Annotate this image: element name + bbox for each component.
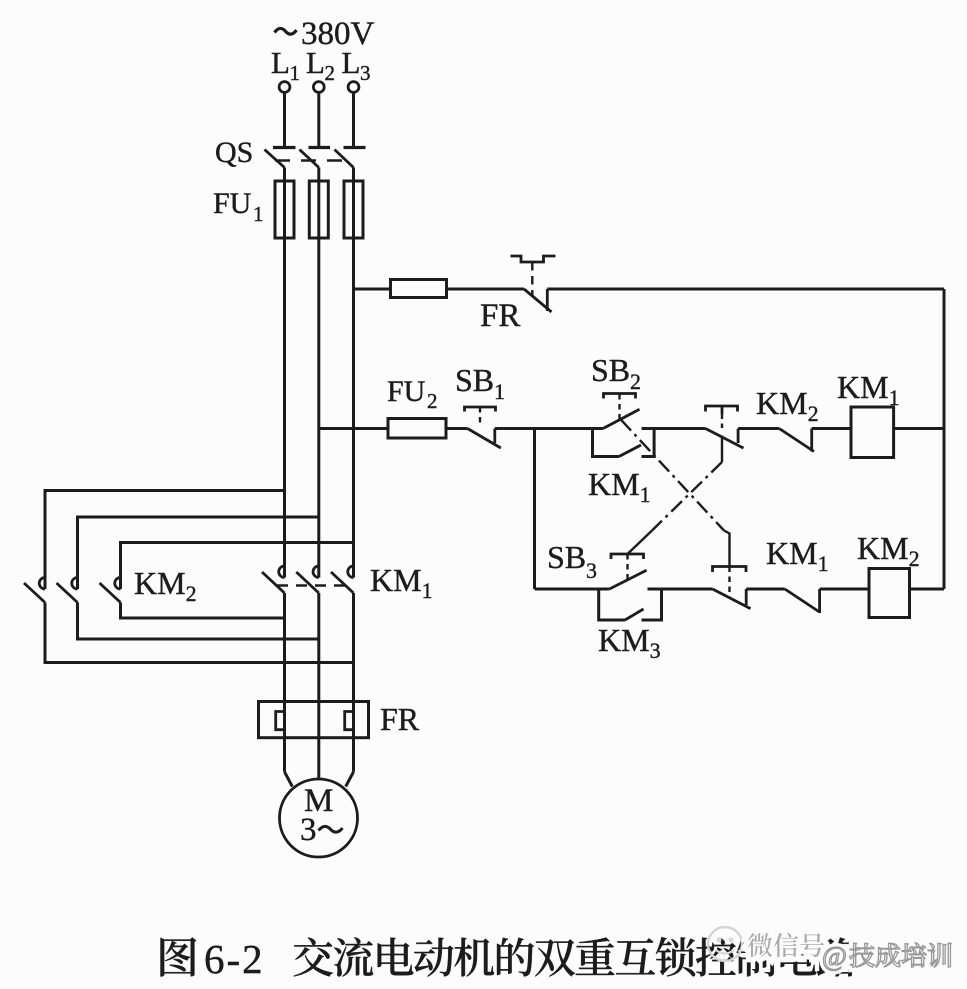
- interlock link row1 NC contact to SB3: [721, 436, 723, 463]
- label ~380V supply: [275, 28, 297, 34]
- svg-text:1: 1: [253, 202, 264, 226]
- pushbutton SB3 NO blade: [609, 570, 646, 589]
- svg-text:3: 3: [586, 558, 597, 583]
- fuse FU2: [388, 419, 446, 439]
- FR heater element phase3: [345, 712, 354, 730]
- contact KM2 NC interlock stub: [810, 429, 813, 452]
- contact SB3-linked actuator bar row1: [706, 406, 738, 412]
- fuse FU1 phase 1: [283, 181, 286, 238]
- svg-text:L: L: [271, 45, 290, 80]
- wire SB2 to SB3 NC contact: [642, 427, 706, 430]
- svg-text:L: L: [306, 45, 325, 80]
- QS linkage dashed line: [275, 159, 346, 161]
- caption 图 6-2 AC motor double-interlock control circuit: [161, 937, 197, 976]
- svg-text:QS: QS: [215, 136, 253, 169]
- switch QS pole 1 fixed contact: [273, 146, 296, 149]
- wire L3 to QS: [352, 93, 355, 147]
- pushbutton SB1 actuator dashed stem: [479, 407, 481, 426]
- wire phase 3 below KM1: [352, 593, 355, 772]
- svg-text:2: 2: [427, 389, 438, 413]
- wire KM2 pole3 to phase1 crossover: [121, 603, 285, 619]
- contact KM1 NC interlock stub: [818, 589, 821, 613]
- svg-text:@: @: [822, 941, 847, 971]
- fuse FU1 phase 2: [317, 181, 320, 238]
- wire KM2 feed phase3: [121, 543, 354, 590]
- contactor KM2 main contact pole 1: [39, 578, 45, 590]
- svg-text:SB: SB: [547, 539, 586, 575]
- wire FR contact to right bus: [547, 288, 944, 291]
- wire SB1 to SB2: [495, 427, 603, 430]
- svg-text:3: 3: [360, 61, 371, 85]
- motor M circle: [280, 779, 358, 857]
- contact KM1 self-latch branch left wire: [593, 429, 620, 457]
- svg-text:FU: FU: [387, 375, 426, 408]
- contact KM3 latch branch left wire: [599, 589, 625, 620]
- pushbutton SB1 actuator bar: [465, 407, 496, 412]
- switch QS pole 2 fixed contact: [309, 146, 331, 149]
- wire fuse to FR contact: [447, 288, 525, 291]
- wire phase3 to control fuse: [354, 288, 391, 291]
- svg-text:SB: SB: [455, 362, 494, 398]
- pushbutton SB3 actuator bar: [611, 554, 644, 559]
- contactor KM2 main contact pole 3: [115, 578, 121, 590]
- pushbutton SB3 actuator dashed stem: [626, 554, 628, 581]
- svg-text:SB: SB: [591, 352, 630, 388]
- svg-text:FR: FR: [480, 298, 520, 334]
- pushbutton SB1 NC stub: [493, 429, 496, 444]
- wire KM2 coil to bus: [910, 588, 945, 591]
- pushbutton SB2 actuator bar: [604, 394, 636, 399]
- thermal relay FR heater box: [259, 702, 369, 738]
- wire row2 left: [535, 588, 610, 591]
- wire to KM2 interlock contact: [738, 427, 779, 430]
- terminal L1: [279, 82, 290, 93]
- watermark logo circle: [708, 927, 742, 961]
- svg-text:3: 3: [300, 812, 317, 848]
- contact SB2-linked NC blade row2: [713, 589, 751, 609]
- contactor KM1 main contact phase 2: [313, 566, 319, 578]
- contact KM2 NC interlock blade: [779, 429, 814, 452]
- wire phase 2 FU1 to KM1 contact: [317, 238, 320, 578]
- contact SB2-linked actuator bar row2: [713, 567, 747, 573]
- wire KM2 contact to KM1 coil: [812, 427, 851, 430]
- node branch to row 2: [533, 429, 536, 590]
- wire L1 to QS: [283, 93, 286, 147]
- wire KM2 pole2 to phase2: [78, 603, 319, 640]
- thermal relay FR NC contact stub: [546, 289, 549, 311]
- contactor KM1 main contact phase 1: [279, 566, 285, 578]
- wire phase 3 FU1 to KM1 contact: [352, 238, 355, 578]
- wire KM1 contact to KM2 coil: [820, 588, 869, 591]
- svg-text:1: 1: [494, 379, 505, 404]
- thermal relay FR actuator bracket: [511, 256, 556, 262]
- wire right bus: [943, 289, 946, 589]
- switch QS pole 1 blade: [265, 150, 285, 168]
- wire KM2 feed phase1: [45, 491, 285, 590]
- svg-text:1: 1: [290, 61, 301, 85]
- terminal L3: [348, 82, 359, 93]
- thermal relay FR actuator dashed stem: [531, 262, 533, 296]
- thermal relay FR NC contact blade: [524, 289, 552, 312]
- wire QS to FU1 phase 1: [283, 168, 286, 182]
- wire QS to FU1 phase 3: [352, 168, 355, 182]
- fuse FU2 upper (control branch fuse): [391, 280, 447, 298]
- wire phase 2 below KM1: [317, 593, 320, 780]
- FR heater element phase1: [276, 712, 285, 730]
- contact KM1 NC interlock blade: [785, 589, 820, 612]
- watermark text weixinhao: [748, 933, 773, 957]
- svg-text:FR: FR: [380, 701, 420, 737]
- terminal L2: [313, 82, 324, 93]
- svg-text:FU: FU: [213, 187, 252, 220]
- svg-text:2: 2: [630, 369, 641, 394]
- wire KM2 pole1 to phase3 crossover: [45, 603, 354, 663]
- contact SB2-linked actuator stem row2: [728, 567, 730, 598]
- contact KM3 latch branch right wire: [642, 589, 662, 620]
- wire QS to FU1 phase 2: [317, 168, 320, 182]
- wire L2 to QS: [317, 93, 320, 147]
- wire FU2 to SB1: [446, 427, 468, 430]
- contact SB3-linked NC stub row1: [737, 429, 740, 444]
- contactor KM2 main contact pole 2: [72, 578, 78, 590]
- contact SB3-linked actuator stem row1: [721, 406, 724, 414]
- motor lead phase1: [285, 772, 293, 787]
- interlock link SB2 to row2 NC contact: [621, 420, 724, 531]
- pushbutton SB2 NO blade: [603, 409, 640, 428]
- coil KM1: [851, 407, 894, 458]
- wire SB3 to SB2 NC contact: [648, 588, 713, 591]
- pushbutton SB1 NC blade: [468, 429, 501, 449]
- contact SB2-linked NC stub row2: [745, 589, 748, 605]
- fuse FU1 phase 3: [352, 181, 355, 238]
- contact KM1 self-latch branch right wire: [642, 429, 655, 457]
- wire phase 1 below KM1: [283, 593, 286, 772]
- wire to KM1 interlock contact: [746, 588, 785, 591]
- svg-text:L: L: [342, 45, 361, 80]
- contact SB3-linked NC blade row1: [706, 429, 744, 449]
- switch QS pole 3 blade: [335, 150, 354, 168]
- contactor KM1 main contact phase 3: [348, 566, 354, 578]
- motor lead phase3: [346, 772, 354, 787]
- KM1 main contacts linkage dashes: [277, 584, 345, 586]
- contact KM3 latch NO blade: [625, 609, 644, 620]
- wire KM1 coil to bus: [894, 427, 944, 430]
- wire phase2 tap to FU2: [319, 427, 388, 430]
- pushbutton SB2 actuator dashed stem: [618, 394, 620, 420]
- coil KM2: [869, 569, 910, 618]
- switch QS pole 2 blade: [300, 150, 319, 168]
- contact KM1 self-latch NO blade: [619, 445, 641, 457]
- svg-text:6-2: 6-2: [204, 936, 265, 982]
- wire phase 1 FU1 to KM1 contact: [283, 238, 286, 578]
- wire KM2 feed phase2: [78, 517, 319, 589]
- switch QS pole 3 fixed contact: [344, 146, 366, 149]
- svg-text:2: 2: [325, 61, 336, 85]
